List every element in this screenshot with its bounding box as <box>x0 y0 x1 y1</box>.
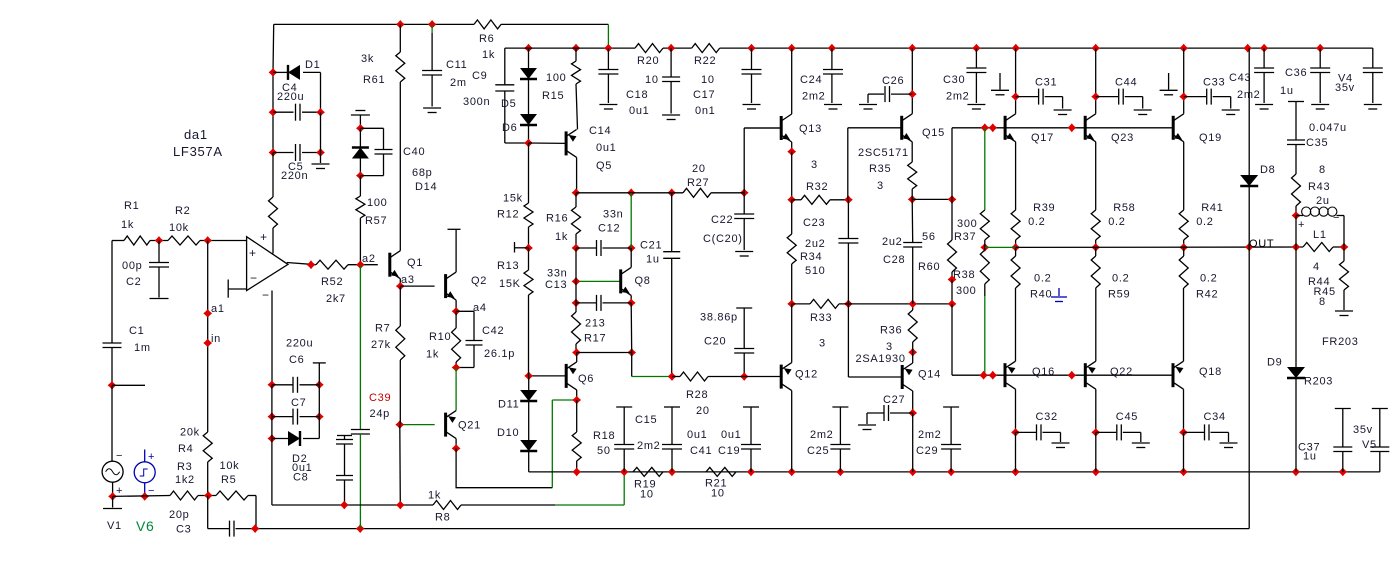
svg-text:R58: R58 <box>1113 202 1135 214</box>
svg-text:R2: R2 <box>175 205 190 217</box>
svg-text:R35: R35 <box>869 163 891 175</box>
svg-text:C9: C9 <box>472 70 487 82</box>
svg-text:−: − <box>116 450 123 462</box>
svg-text:C(C20): C(C20) <box>703 233 743 245</box>
svg-text:R61: R61 <box>363 74 385 86</box>
svg-text:C30: C30 <box>943 74 965 86</box>
svg-text:100: 100 <box>367 197 387 209</box>
svg-text:C23: C23 <box>803 217 825 229</box>
svg-text:R18: R18 <box>593 430 615 442</box>
svg-text:8: 8 <box>1319 296 1326 308</box>
svg-text:D1: D1 <box>305 59 320 71</box>
svg-text:V1: V1 <box>107 520 122 532</box>
svg-text:R38: R38 <box>953 269 975 281</box>
svg-text:Q15: Q15 <box>922 127 945 139</box>
svg-text:15K: 15K <box>499 278 521 290</box>
svg-text:C33: C33 <box>1203 77 1225 89</box>
svg-text:C18: C18 <box>626 89 648 101</box>
svg-text:26.1p: 26.1p <box>484 348 515 360</box>
svg-text:15k: 15k <box>503 193 523 205</box>
svg-text:1u: 1u <box>646 254 660 266</box>
svg-text:00p: 00p <box>122 260 142 272</box>
svg-text:2u: 2u <box>1316 195 1330 207</box>
svg-text:C26: C26 <box>882 75 904 87</box>
svg-text:0.2: 0.2 <box>1028 216 1045 228</box>
svg-text:0.2: 0.2 <box>1196 216 1213 228</box>
svg-text:R59: R59 <box>1108 289 1130 301</box>
svg-text:C8: C8 <box>293 472 308 484</box>
svg-text:C25: C25 <box>807 445 829 457</box>
svg-text:20k: 20k <box>180 427 200 439</box>
svg-text:68p: 68p <box>412 167 432 179</box>
svg-text:D6: D6 <box>502 122 517 134</box>
svg-text:10k: 10k <box>220 460 240 472</box>
svg-text:R17: R17 <box>584 333 606 345</box>
svg-text:Q18: Q18 <box>1199 366 1222 378</box>
svg-text:2m2: 2m2 <box>637 440 661 452</box>
svg-text:R39: R39 <box>1033 202 1055 214</box>
svg-text:R33: R33 <box>810 312 832 324</box>
svg-text:8: 8 <box>1319 164 1326 176</box>
svg-text:0.2: 0.2 <box>1112 273 1129 285</box>
svg-text:35v: 35v <box>1353 424 1373 436</box>
svg-text:da1: da1 <box>184 127 208 142</box>
svg-text:1k: 1k <box>428 490 441 502</box>
svg-text:R43: R43 <box>1308 181 1330 193</box>
svg-text:R1: R1 <box>124 200 139 212</box>
svg-text:R7: R7 <box>375 323 390 335</box>
svg-text:33n: 33n <box>603 209 623 221</box>
svg-text:R5: R5 <box>221 474 236 486</box>
svg-text:300n: 300n <box>463 96 490 108</box>
svg-text:Q21: Q21 <box>458 420 481 432</box>
svg-text:R34: R34 <box>800 251 822 263</box>
svg-text:Q5: Q5 <box>596 160 612 172</box>
svg-text:1k: 1k <box>426 349 439 361</box>
svg-text:220u: 220u <box>277 91 304 103</box>
svg-text:10k: 10k <box>169 222 189 234</box>
svg-text:C22: C22 <box>711 214 733 226</box>
svg-text:R42: R42 <box>1196 289 1218 301</box>
svg-text:3: 3 <box>819 338 826 350</box>
svg-text:1k: 1k <box>121 219 134 231</box>
svg-text:Q23: Q23 <box>1111 132 1134 144</box>
svg-text:510: 510 <box>805 265 825 277</box>
svg-text:0u1: 0u1 <box>721 429 741 441</box>
svg-text:R60: R60 <box>918 261 940 273</box>
svg-text:a1: a1 <box>211 303 225 315</box>
svg-text:R6: R6 <box>479 33 494 45</box>
svg-text:+: + <box>1298 219 1305 231</box>
svg-text:R57: R57 <box>365 215 387 227</box>
svg-text:C44: C44 <box>1115 77 1137 89</box>
svg-text:4: 4 <box>1313 261 1320 273</box>
svg-text:2m2: 2m2 <box>802 91 826 103</box>
svg-text:C7: C7 <box>291 397 306 409</box>
svg-text:R16: R16 <box>546 213 568 225</box>
svg-text:38.86p: 38.86p <box>700 312 738 324</box>
svg-text:R8: R8 <box>435 512 450 524</box>
svg-text:Q1: Q1 <box>407 257 423 269</box>
svg-text:0.047u: 0.047u <box>1309 122 1347 134</box>
svg-text:C6: C6 <box>289 354 304 366</box>
svg-text:R203: R203 <box>1304 376 1333 388</box>
svg-text:10: 10 <box>640 489 654 501</box>
svg-text:R13: R13 <box>497 260 519 272</box>
svg-text:C1: C1 <box>129 325 144 337</box>
svg-text:10: 10 <box>645 74 659 86</box>
svg-text:a2: a2 <box>362 253 376 265</box>
svg-text:R37: R37 <box>954 231 976 243</box>
svg-text:V6: V6 <box>136 518 155 534</box>
svg-text:R36: R36 <box>880 325 902 337</box>
svg-text:C27: C27 <box>883 394 905 406</box>
svg-text:in: in <box>211 333 221 345</box>
svg-text:2m2: 2m2 <box>918 429 942 441</box>
svg-text:+: + <box>260 230 268 244</box>
svg-text:C11: C11 <box>446 59 467 71</box>
svg-text:C20: C20 <box>704 336 726 348</box>
svg-text:35v: 35v <box>1335 82 1355 94</box>
svg-text:D11: D11 <box>498 399 519 411</box>
svg-text:0.2: 0.2 <box>1108 216 1125 228</box>
svg-text:0u1: 0u1 <box>687 429 707 441</box>
svg-text:D9: D9 <box>1267 357 1282 369</box>
svg-text:D14: D14 <box>415 181 437 193</box>
svg-text:Q19: Q19 <box>1199 132 1222 144</box>
svg-text:C39: C39 <box>369 392 391 404</box>
svg-text:C45: C45 <box>1116 411 1138 423</box>
svg-text:D8: D8 <box>1260 164 1275 176</box>
svg-text:Q17: Q17 <box>1031 132 1054 144</box>
svg-text:C36: C36 <box>1285 67 1307 79</box>
svg-text:300: 300 <box>956 285 976 297</box>
svg-text:L1: L1 <box>1313 229 1327 241</box>
svg-text:20: 20 <box>696 405 710 417</box>
svg-text:220n: 220n <box>281 170 308 182</box>
svg-text:+: + <box>116 485 123 497</box>
svg-text:R12: R12 <box>497 209 519 221</box>
svg-text:Q16: Q16 <box>1032 366 1055 378</box>
svg-text:0.2: 0.2 <box>1200 273 1217 285</box>
svg-text:1k: 1k <box>555 231 568 243</box>
svg-text:24p: 24p <box>370 408 390 420</box>
svg-text:D5: D5 <box>501 98 516 110</box>
svg-text:−: − <box>1333 212 1340 224</box>
svg-text:R3: R3 <box>177 461 192 473</box>
svg-text:R40: R40 <box>1030 289 1052 301</box>
svg-text:R52: R52 <box>321 276 343 288</box>
svg-text:C40: C40 <box>403 146 425 158</box>
svg-text:Q12: Q12 <box>795 369 818 381</box>
svg-text:10: 10 <box>711 488 725 500</box>
svg-text:33n: 33n <box>547 268 567 280</box>
svg-text:C12: C12 <box>598 223 620 235</box>
svg-text:Q22: Q22 <box>1110 366 1133 378</box>
svg-text:3: 3 <box>886 341 893 353</box>
svg-text:R41: R41 <box>1201 202 1223 214</box>
svg-text:0u1: 0u1 <box>629 105 649 117</box>
svg-text:R4: R4 <box>178 443 193 455</box>
svg-text:Q8: Q8 <box>635 275 651 287</box>
svg-text:2m: 2m <box>450 77 467 89</box>
svg-text:C21: C21 <box>640 240 662 252</box>
svg-text:C3: C3 <box>176 524 191 536</box>
svg-text:20: 20 <box>692 163 706 175</box>
svg-text:C15: C15 <box>635 414 657 426</box>
svg-text:−: − <box>250 271 258 285</box>
svg-text:C14: C14 <box>589 125 611 137</box>
svg-text:2m2: 2m2 <box>946 91 970 103</box>
svg-text:Q2: Q2 <box>471 275 487 287</box>
svg-text:Q6: Q6 <box>578 373 594 385</box>
svg-text:0n1: 0n1 <box>695 105 715 117</box>
svg-text:C24: C24 <box>800 74 822 86</box>
svg-text:27k: 27k <box>371 339 391 351</box>
svg-text:0u1: 0u1 <box>596 142 616 154</box>
svg-text:C31: C31 <box>1035 77 1057 89</box>
svg-text:C41: C41 <box>690 445 712 457</box>
svg-text:1u: 1u <box>1280 85 1294 97</box>
svg-text:R20: R20 <box>637 55 659 67</box>
svg-text:C34: C34 <box>1204 411 1226 423</box>
svg-text:R27: R27 <box>687 177 709 189</box>
svg-text:3k: 3k <box>361 53 374 65</box>
svg-text:V5: V5 <box>1362 439 1377 451</box>
svg-text:2u2: 2u2 <box>805 238 825 250</box>
svg-text:C32: C32 <box>1036 411 1058 423</box>
svg-text:1u: 1u <box>1303 451 1317 463</box>
svg-text:50: 50 <box>597 445 611 457</box>
svg-text:3: 3 <box>877 180 884 192</box>
svg-text:R10: R10 <box>429 331 451 343</box>
svg-text:LF357A: LF357A <box>173 144 223 159</box>
svg-text:+: + <box>148 451 155 463</box>
svg-text:10: 10 <box>701 74 715 86</box>
svg-text:2m2: 2m2 <box>810 429 834 441</box>
svg-text:20p: 20p <box>169 509 189 521</box>
svg-text:−: − <box>262 288 270 302</box>
svg-text:R22: R22 <box>694 55 716 67</box>
svg-text:C2: C2 <box>126 276 141 288</box>
svg-text:220u: 220u <box>286 338 313 350</box>
svg-text:R15: R15 <box>542 90 564 102</box>
svg-text:C42: C42 <box>482 325 504 337</box>
svg-text:1k: 1k <box>482 49 495 61</box>
svg-text:3: 3 <box>811 159 818 171</box>
svg-text:OUT: OUT <box>1249 238 1274 250</box>
svg-text:D10: D10 <box>497 427 519 439</box>
svg-text:+: + <box>249 246 257 260</box>
svg-text:0.2: 0.2 <box>1034 273 1051 285</box>
svg-text:2u2: 2u2 <box>882 236 902 248</box>
svg-text:Q14: Q14 <box>918 369 941 381</box>
svg-text:FR203: FR203 <box>1322 336 1359 348</box>
svg-text:2SC5171: 2SC5171 <box>858 147 909 159</box>
svg-text:R28: R28 <box>686 389 708 401</box>
svg-text:100: 100 <box>546 72 566 84</box>
svg-text:213: 213 <box>585 318 605 330</box>
svg-text:C28: C28 <box>883 254 905 266</box>
svg-text:300: 300 <box>957 218 977 230</box>
svg-text:R32: R32 <box>806 181 828 193</box>
svg-text:2SA1930: 2SA1930 <box>856 353 906 365</box>
svg-text:2k7: 2k7 <box>326 293 346 305</box>
svg-text:C43: C43 <box>1229 72 1251 84</box>
svg-text:a4: a4 <box>473 302 487 314</box>
svg-text:C13: C13 <box>545 279 567 291</box>
svg-text:C17: C17 <box>693 89 715 101</box>
svg-text:C19: C19 <box>718 445 740 457</box>
svg-text:56: 56 <box>922 231 936 243</box>
svg-text:Q13: Q13 <box>799 123 822 135</box>
svg-text:1k2: 1k2 <box>175 474 195 486</box>
svg-text:C35: C35 <box>1306 137 1328 149</box>
svg-text:a3: a3 <box>401 274 415 286</box>
svg-text:C29: C29 <box>916 445 938 457</box>
svg-text:1m: 1m <box>134 342 151 354</box>
